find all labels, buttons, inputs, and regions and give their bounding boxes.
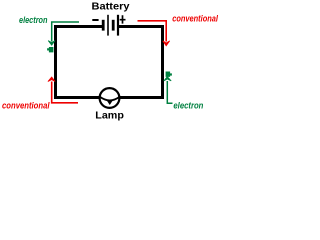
electron flow arrowhead bottom-right [164,77,171,81]
lamp L1 circle [100,88,120,108]
conventional flow arrowhead top-right [163,41,170,46]
electron flow arrowhead top-left [48,41,55,46]
conventional flow arrow bottom-left (red L with up arrowhead) [52,82,78,103]
battery B1 plus sign [120,15,126,23]
lamp L1 filament [100,97,120,101]
battery B1 minus sign [92,19,98,21]
electron flow arrow bottom-right (green L with up arrowhead) [167,81,172,103]
lamp L1 filament triangle [107,100,113,105]
battery B1 short plate 2 [112,20,115,31]
svg-text:Lamp: Lamp [95,111,124,122]
battery B1 short plate 1 [102,20,105,31]
svg-text:Battery: Battery [92,1,130,12]
electron flow arrow top-left (green L with down arrowhead) [52,22,79,42]
battery B1 long plate 2 [117,15,119,36]
svg-text:electron: electron [19,15,48,25]
wire left loop (top-left, left, bottom-left segments) [56,27,104,98]
conventional flow arrow top-right (red L with down arrowhead) [138,21,167,42]
svg-text:electron: electron [173,101,203,111]
svg-text:conventional: conventional [2,100,50,110]
electron symbol blob bottom-right [166,72,172,77]
electron symbol blob top-left [47,47,53,52]
conventional flow arrowhead bottom-left [48,77,55,82]
svg-text:conventional: conventional [172,13,218,23]
wire right loop (top-right, right, bottom-right segments) [119,27,163,98]
battery B1 long plate 1 [107,15,109,36]
